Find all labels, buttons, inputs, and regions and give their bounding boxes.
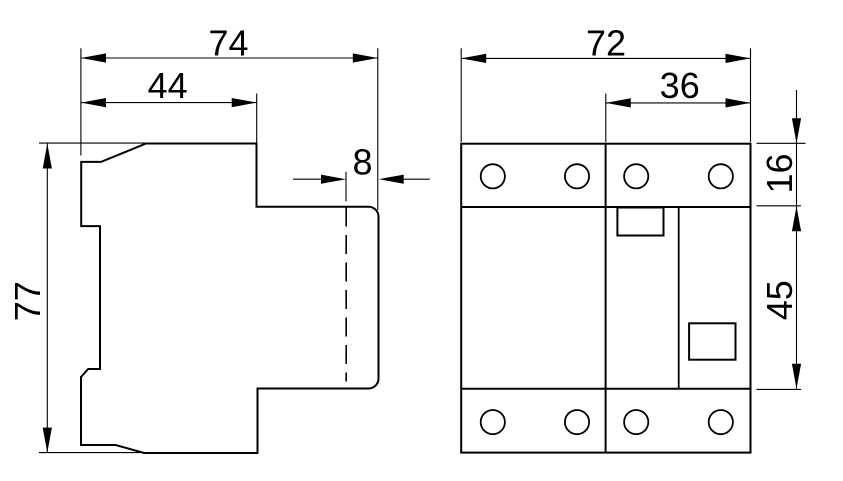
dimension 8: left arrowhead (pointing right) xyxy=(321,175,346,184)
dimension 16: extension line bottom xyxy=(757,205,802,207)
test button rectangle xyxy=(689,323,735,359)
front view module divider xyxy=(605,144,607,453)
dimension 45: bottom arrowhead (pointing down) xyxy=(792,364,801,389)
svg-text:74: 74 xyxy=(208,23,248,64)
dashed line (DIN rail recess hidden edge) xyxy=(345,208,347,382)
toggle switch rectangle xyxy=(617,208,663,236)
dimension 77: extension line top xyxy=(39,142,145,144)
dimension 77: top arrowhead xyxy=(43,144,52,169)
dimension 16: top arrowhead (pointing down) xyxy=(792,118,801,143)
terminal screw hole bottom 3 xyxy=(624,410,648,434)
svg-text:77: 77 xyxy=(7,281,48,321)
dimension 74: left arrowhead xyxy=(81,53,106,62)
front view bottom terminal band line xyxy=(461,388,750,390)
dimension 45: extension line bottom xyxy=(757,388,802,390)
dimension 8: right arrowhead (pointing left) xyxy=(379,175,404,184)
terminal screw hole top 4 xyxy=(709,164,733,188)
dimension 36: left arrowhead xyxy=(606,98,631,107)
dimension 44: right arrowhead xyxy=(232,98,257,107)
front view outer outline xyxy=(461,144,750,453)
terminal screw hole top 1 xyxy=(481,164,505,188)
svg-text:8: 8 xyxy=(352,142,372,183)
dimension 74: extension line left xyxy=(80,48,82,155)
dimension 44: extension line right xyxy=(256,94,258,144)
dimension 44: left arrowhead xyxy=(81,98,106,107)
dimension 72: extension line left xyxy=(460,48,462,142)
dimension 44: dimension line xyxy=(81,102,257,104)
svg-text:45: 45 xyxy=(759,280,800,320)
terminal screw hole bottom 1 xyxy=(481,410,505,434)
dimension 8: extension line left xyxy=(345,172,347,202)
dimension 36: extension line left xyxy=(605,94,607,143)
terminal screw hole bottom 2 xyxy=(565,410,589,434)
side view outline xyxy=(81,144,379,454)
dimension 8: right tail line xyxy=(404,178,430,180)
dimension 36: dimension line xyxy=(606,102,751,104)
dimension 74: right arrowhead xyxy=(353,53,378,62)
svg-text:16: 16 xyxy=(759,153,800,193)
dimension 77: bottom arrowhead xyxy=(43,428,52,453)
front view inner vertical line xyxy=(678,207,680,389)
dimension 74: dimension line xyxy=(81,57,378,59)
dimension 77: dimension line xyxy=(46,144,48,453)
svg-text:72: 72 xyxy=(586,23,626,64)
terminal screw hole top 3 xyxy=(624,164,648,188)
dimension 16/45: shared vertical dimension line xyxy=(796,90,798,389)
svg-text:44: 44 xyxy=(148,65,188,106)
dimension 72: left arrowhead xyxy=(461,54,486,63)
dimension 36: right arrowhead xyxy=(726,98,751,107)
terminal screw hole bottom 4 xyxy=(709,410,733,434)
dimension 72: dimension line xyxy=(461,57,750,59)
dimension 16: extension line top xyxy=(757,142,806,144)
dimension 72: right arrowhead xyxy=(726,54,751,63)
dimension 16: bottom / 45 top arrowhead (pointing up) xyxy=(792,206,801,231)
dimension 74: extension line right (shared with dim 8) xyxy=(377,48,379,210)
dimension 8: left tail line xyxy=(293,178,321,180)
dimension 72: extension line right xyxy=(750,48,752,142)
dimension 77: extension line bottom xyxy=(39,452,140,454)
terminal screw hole top 2 xyxy=(565,164,589,188)
front view top terminal band line xyxy=(461,206,750,208)
svg-text:36: 36 xyxy=(660,65,700,106)
